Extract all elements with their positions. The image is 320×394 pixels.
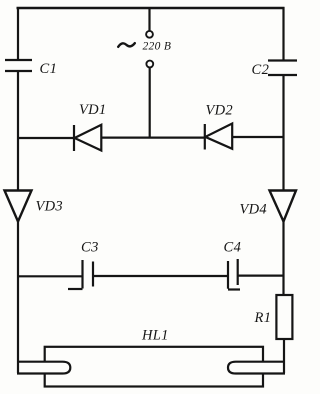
diode VD2 cathode bar (204, 124, 206, 150)
svg-text:220 В: 220 В (143, 41, 172, 53)
capacitor C4 (228, 259, 240, 290)
AC tilde symbol (118, 43, 135, 47)
wire right vertical lower (282, 220, 284, 295)
svg-text:HL1: HL1 (141, 328, 169, 344)
wire left vertical middle (17, 71, 19, 191)
diode VD1 (75, 125, 102, 151)
wire left vertical upper (17, 7, 19, 60)
diode VD1 cathode bar (73, 125, 75, 151)
wire middle bus right (232, 136, 284, 138)
wire lower bus center (93, 275, 228, 277)
svg-text:C4: C4 (224, 240, 242, 256)
diode VD2 (205, 124, 232, 149)
resistor R1 (276, 295, 292, 339)
wire top horizontal (17, 7, 285, 10)
svg-text:VD4: VD4 (240, 202, 267, 218)
lamp HL1 left filament electrode (17, 362, 70, 374)
svg-text:VD1: VD1 (79, 102, 106, 118)
svg-text:VD2: VD2 (206, 103, 233, 119)
svg-text:C3: C3 (81, 240, 99, 256)
wire left vertical lower (17, 220, 19, 373)
svg-text:C2: C2 (252, 62, 270, 78)
capacitor C1 (5, 60, 32, 71)
lamp HL1 tube body (45, 347, 263, 387)
capacitor C2 (268, 61, 297, 76)
wire AC drop from top (148, 8, 150, 31)
terminal lower circle (146, 61, 153, 68)
wire right vertical upper (282, 7, 284, 61)
capacitor C3 (68, 260, 93, 289)
wire right vertical to lamp (283, 339, 285, 373)
terminal upper circle (146, 31, 153, 38)
wire lower bus right (238, 275, 285, 277)
wire right vertical middle (282, 75, 284, 191)
wire lower bus left (17, 275, 82, 277)
lamp HL1 right filament electrode (228, 362, 285, 374)
svg-text:R1: R1 (254, 310, 272, 326)
svg-text:VD3: VD3 (36, 199, 63, 215)
diode VD3 (5, 191, 32, 222)
wire middle bus left (17, 137, 74, 139)
diode VD4 (270, 191, 297, 222)
svg-text:C1: C1 (40, 61, 58, 77)
wire middle bus center (101, 137, 205, 139)
wire AC drop to middle bus (149, 68, 151, 138)
